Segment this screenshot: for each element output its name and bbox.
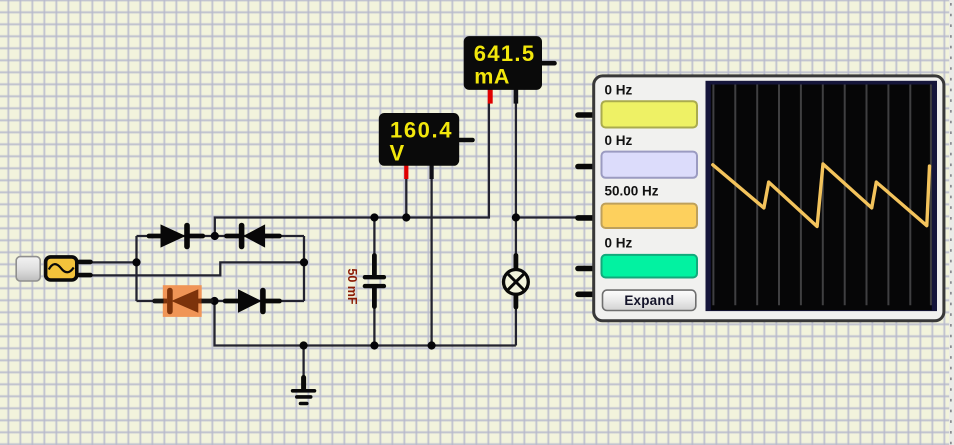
ground symbol: [293, 378, 315, 404]
oscilloscope ch4 colour swatch: [602, 255, 698, 278]
oscilloscope ch3 colour swatch: [602, 204, 698, 228]
svg-text:mA: mA: [474, 65, 510, 89]
diode D2 (top-right, cathode left): [227, 225, 280, 247]
svg-text:50 mF: 50 mF: [345, 268, 359, 304]
lamp L1: [504, 270, 529, 295]
oscilloscope ground pin: [578, 291, 594, 297]
voltmeter M1 red probe stem: [404, 165, 408, 179]
wire: capacitor branch upper: [373, 218, 375, 277]
wire: ground branch: [302, 346, 304, 380]
canvas right edge strip: [949, 0, 954, 445]
wire: lamp bottom to bottom-rail right corner: [515, 294, 517, 345]
switch button SW1: [16, 257, 40, 281]
wire: capacitor branch lower: [373, 287, 375, 346]
oscilloscope ch1 colour swatch: [602, 101, 698, 127]
svg-text:50.00 Hz: 50.00 Hz: [605, 184, 659, 199]
oscilloscope screen bezel: [706, 81, 938, 311]
node: left rail / source junction: [132, 258, 140, 266]
wire: bottom rail: [215, 301, 516, 346]
AC source V1: [46, 257, 77, 280]
node: right rail / source junction: [300, 258, 308, 266]
oscilloscope Expand button: [603, 290, 696, 310]
voltmeter M1 black probe stem: [430, 165, 434, 179]
svg-text:0 Hz: 0 Hz: [605, 133, 633, 148]
AC source terminal pins: [80, 262, 91, 275]
svg-text:Expand: Expand: [624, 293, 674, 308]
wire: bottom diode row: [137, 300, 305, 302]
wire: AC source bottom lead with jog up to right bridge rail: [91, 262, 304, 275]
ammeter M2 right stub: [542, 61, 555, 66]
wire: AC source top lead to left bridge rail: [91, 261, 137, 263]
wire: voltmeter black probe down to bottom rail: [430, 178, 432, 346]
svg-text:0 Hz: 0 Hz: [605, 83, 633, 98]
wire: right bridge rail: [303, 236, 305, 301]
lamp L1 leads: [514, 256, 519, 308]
node: capacitor top junction: [370, 213, 378, 221]
capacitor C1 leads: [372, 256, 377, 307]
capacitor C1 plates: [365, 277, 384, 286]
diode D3 (bottom-left, selected, cathode left): [155, 290, 211, 312]
oscilloscope input pin ch2: [578, 164, 594, 170]
voltmeter M1 body: [379, 113, 459, 166]
ammeter M2 red probe stem: [488, 88, 493, 104]
svg-text:641.5: 641.5: [474, 41, 536, 66]
svg-text:160.4: 160.4: [390, 117, 453, 142]
wire: left bridge rail: [135, 236, 137, 301]
wire: ammeter black probe down through lamp node to bottom rail: [515, 104, 517, 270]
ammeter M2 body: [464, 36, 542, 90]
voltmeter M1 right stub: [459, 138, 473, 143]
oscilloscope input pin ch1: [578, 112, 594, 118]
node: capacitor bottom junction: [370, 341, 378, 349]
wire: voltmeter red probe to top rail: [405, 178, 407, 218]
diode D3 selection highlight: [163, 285, 202, 317]
wire: top diode row: [137, 235, 305, 237]
node: top mid bridge junction: [211, 232, 219, 240]
svg-text:V: V: [390, 140, 405, 165]
node: ground junction on bottom rail: [300, 341, 308, 349]
oscilloscope ch3 waveform trace: [713, 164, 930, 227]
oscilloscope screen gridlines: [713, 85, 931, 306]
diode D4 (bottom-right, anode left): [225, 290, 279, 312]
wire: scope channel-3 feed from lamp-top node to scope pin: [516, 216, 588, 218]
node: lamp top junction: [512, 213, 520, 221]
ammeter M2 black probe stem: [514, 88, 519, 104]
oscilloscope input pin ch3: [578, 215, 594, 221]
diode D1 (top-left, anode left): [149, 225, 203, 247]
oscilloscope ch2 colour swatch: [602, 152, 698, 178]
oscilloscope input pin ch4: [578, 266, 594, 272]
node: voltmeter red junction: [402, 213, 410, 221]
oscilloscope screen: [711, 85, 932, 311]
node: bottom mid bridge junction: [210, 297, 218, 305]
node: voltmeter black junction: [428, 341, 436, 349]
oscilloscope panel body: [594, 76, 944, 321]
wire: top rail from bridge mid-top to ammeter red probe: [215, 104, 489, 237]
svg-text:0 Hz: 0 Hz: [605, 235, 633, 250]
